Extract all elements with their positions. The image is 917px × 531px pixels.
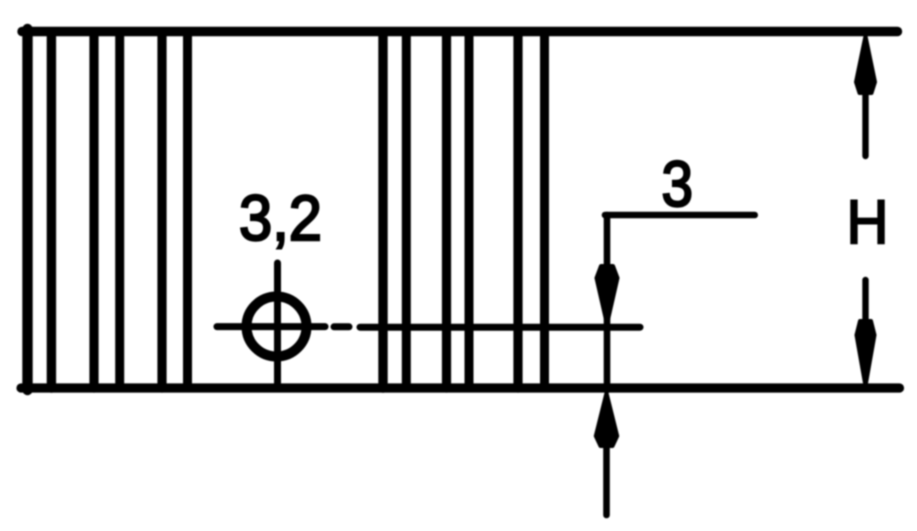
dimension 3 leader horizontal xyxy=(605,212,755,219)
fin L3 xyxy=(89,34,98,388)
fin M2 xyxy=(402,34,411,388)
arrowhead down onto bottom edge (dim H) xyxy=(857,321,875,386)
fin M5 xyxy=(513,34,522,388)
mounting hole circle 3,2 xyxy=(247,297,307,357)
svg-text:3,2: 3,2 xyxy=(239,182,322,254)
centerline dash xyxy=(334,323,349,330)
fin L6 xyxy=(183,34,192,388)
profile top edge xyxy=(22,27,898,36)
profile left edge fin xyxy=(22,29,32,390)
fin M1 xyxy=(378,34,387,388)
profile bottom edge xyxy=(21,383,900,392)
fin L2 xyxy=(47,34,56,388)
dimension 3 extension vertical xyxy=(604,215,611,390)
dimension H stem lower xyxy=(862,280,868,323)
fin M3 xyxy=(442,34,451,388)
svg-text:H: H xyxy=(847,189,889,258)
arrowhead up onto bottom edge (dim 3) xyxy=(596,393,617,446)
hole horizontal centerline left xyxy=(217,323,325,330)
arrowhead up onto top edge (dim H) xyxy=(856,36,875,93)
dimension 3 lower stem xyxy=(603,447,610,515)
dimension H stem upper xyxy=(862,88,868,156)
fin L4 xyxy=(115,34,124,388)
fin M4 xyxy=(465,34,474,388)
arrowhead down onto centerline (dim 3) xyxy=(597,266,618,324)
centerline long segment xyxy=(360,324,640,331)
hole vertical centerline xyxy=(274,263,281,389)
svg-text:3: 3 xyxy=(661,148,693,220)
fin L5 xyxy=(157,34,166,388)
fin M6 xyxy=(540,34,549,388)
